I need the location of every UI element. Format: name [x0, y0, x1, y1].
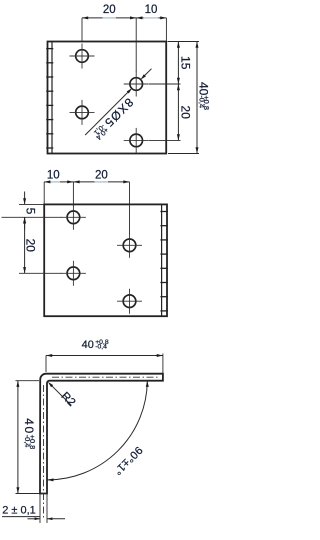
middle view dimension 5 (vertical left) [2, 192, 62, 230]
horizontal leg centerline [52, 376, 160, 378]
hole B1 upper-left [61, 205, 86, 230]
svg-text:40+0,8-0,4: 40+0,8-0,4 [196, 82, 211, 110]
top view dimension 40 +0,8/-0,4 (vertical far right) [168, 42, 211, 154]
hole A4 lower-right [124, 128, 149, 153]
top view: bracket plate outline [48, 42, 167, 154]
vertical leg centerline [43, 385, 45, 520]
svg-text:10: 10 [145, 4, 158, 16]
middle view dimension 20 (horizontal) [73, 169, 129, 234]
L-profile outline with rounded corner [40, 374, 163, 494]
middle view dimension 10 (horizontal) [44, 169, 73, 204]
hole A3 upper-right [124, 72, 149, 97]
middle view dimension 20 (vertical left) [19, 217, 62, 273]
hole A2 middle-left [70, 100, 95, 125]
hole B2 upper-right [117, 233, 142, 258]
radius leader R2 [48, 382, 78, 409]
svg-text:40: 40 [82, 339, 94, 351]
svg-text:15: 15 [178, 56, 192, 70]
hole B4 lower-right [117, 289, 142, 314]
top view dimension 20 (horizontal) [82, 4, 136, 41]
angle dimension arc 90 deg +/-1 deg [47, 381, 149, 482]
svg-text:-0,4: -0,4 [95, 344, 107, 351]
top view dimension 20 (vertical right) [149, 84, 192, 140]
svg-text:5: 5 [24, 208, 38, 215]
middle view: bend-edge tick marks [160, 212, 168, 311]
svg-text:2 ± 0,1: 2 ± 0,1 [2, 505, 36, 517]
top view: bend-edge tick marks [46, 49, 53, 148]
svg-text:20: 20 [103, 4, 116, 16]
svg-text:40+0,8-0,4: 40+0,8-0,4 [22, 418, 37, 449]
svg-text:20: 20 [178, 106, 192, 120]
thickness dimension 2 +/-0,1 [2, 494, 65, 524]
svg-text:10: 10 [47, 169, 60, 181]
leader 8X diameter 5 +0,4/-0,1 with arrows [85, 69, 151, 142]
bottom view dimension 40 +0,8/-0,4 (vertical left) [16, 381, 47, 494]
bottom view dimension 40 +0,8/-0,4 (horizontal top) [46, 339, 163, 373]
hole B3 lower-left [61, 261, 86, 286]
middle view: plate outline [44, 204, 167, 316]
top view dimension 15 (vertical right) [149, 42, 192, 85]
svg-text:20: 20 [24, 239, 38, 253]
svg-text:20: 20 [95, 169, 108, 181]
top view dimension 10 (horizontal) [136, 4, 166, 72]
hole A1 top-left [70, 44, 95, 69]
